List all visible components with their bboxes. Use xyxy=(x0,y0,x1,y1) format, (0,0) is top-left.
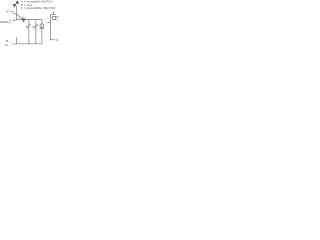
wire (stub from N mark to bus) xyxy=(13,19,16,21)
actuator tick (left of right vertical) xyxy=(47,22,50,24)
wire (dash toward valve stem) xyxy=(11,11,13,13)
contact K2 actuator tick xyxy=(32,25,34,27)
contact bar of switch S1 xyxy=(13,13,17,15)
wire (reference drop from legend) xyxy=(53,11,55,14)
box B1 (data point square) xyxy=(53,16,56,19)
junction dot xyxy=(11,40,14,43)
wire (valve stem down to bus) xyxy=(15,6,17,20)
wire (right structure vertical) xyxy=(49,15,51,40)
contact K1 actuator tick xyxy=(25,25,27,27)
valve V1 (bowtie symbol, top-left) xyxy=(13,1,20,8)
node X (crossing mark on bus) xyxy=(22,17,26,22)
svg-text:N: N xyxy=(9,20,11,23)
contact K2 (diagonal) xyxy=(34,24,38,28)
switch S1 lever xyxy=(17,14,22,19)
svg-text:M: M xyxy=(6,10,8,14)
contact K1 (diagonal) xyxy=(27,24,31,28)
terminal N stub xyxy=(16,37,18,44)
svg-text:PWE01: PWE01 xyxy=(0,21,9,24)
wire (right structure top arm) xyxy=(50,14,55,16)
svg-text:N: N xyxy=(56,39,58,42)
svg-text:75.: 75. xyxy=(5,39,9,43)
wire (branch 2 drop) xyxy=(35,20,37,44)
wire (branch 1 drop) xyxy=(28,20,30,44)
wire (bottom bus) xyxy=(12,43,42,45)
svg-text:1 = Hand/EIN (NH/NO): 1 = Hand/EIN (NH/NO) xyxy=(21,6,56,10)
wire (right structure bottom arm) xyxy=(50,39,55,41)
motor M1 base bar xyxy=(39,27,44,29)
motor M1 (circle) xyxy=(40,24,44,28)
wire (right drop from bus corner) xyxy=(41,20,43,44)
wire (top bus) xyxy=(16,19,42,21)
